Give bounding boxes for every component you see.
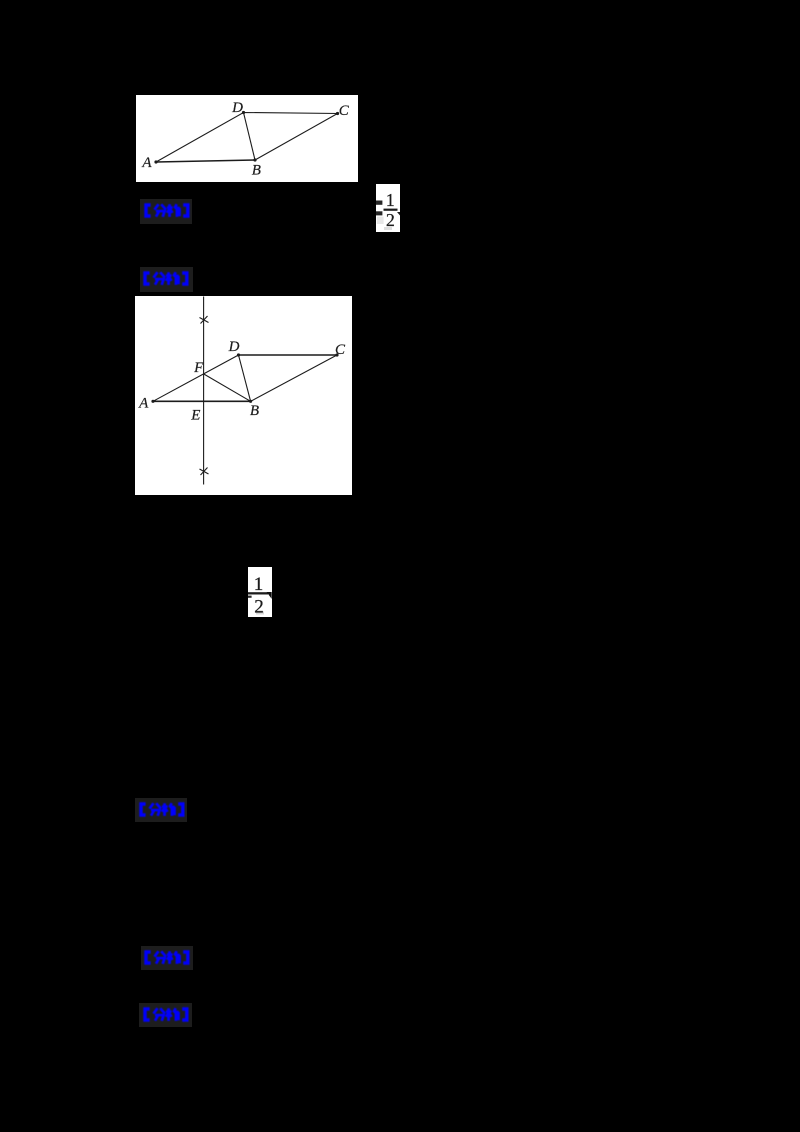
svg-text:C: C bbox=[339, 103, 350, 119]
svg-text:E: E bbox=[190, 407, 200, 423]
svg-text:D: D bbox=[228, 339, 240, 355]
svg-text:A: A bbox=[141, 155, 152, 171]
svg-text:B: B bbox=[250, 403, 259, 419]
svg-text:A: A bbox=[138, 396, 149, 412]
svg-text:B: B bbox=[252, 163, 261, 179]
svg-text:1: 1 bbox=[254, 574, 264, 595]
svg-text:2: 2 bbox=[254, 597, 264, 618]
svg-text:F: F bbox=[193, 360, 204, 376]
svg-text:C: C bbox=[335, 342, 346, 358]
svg-text:D: D bbox=[231, 100, 243, 116]
svg-text:2: 2 bbox=[386, 210, 395, 230]
svg-text:1: 1 bbox=[386, 190, 395, 210]
